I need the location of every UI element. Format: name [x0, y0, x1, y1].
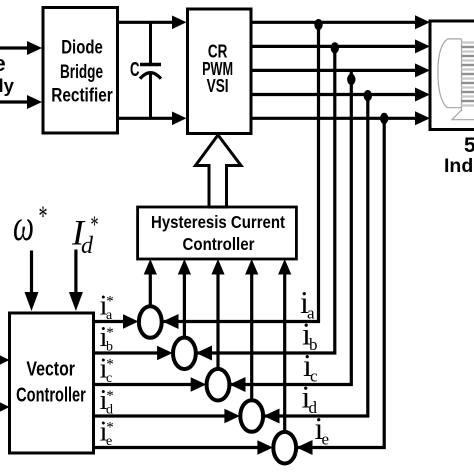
wire DC rail top (rectifier to VSI): [116, 21, 174, 24]
label ib feedback: [302, 316, 318, 355]
arrowhead DC rail top into VSI: [172, 16, 187, 30]
wire riser summer 2 to hysteresis controller: [183, 272, 186, 339]
svg-text:c: c: [310, 367, 318, 386]
wire riser summer 1 to hysteresis controller: [149, 272, 152, 307]
wire feedback drop ib: [197, 46, 335, 353]
summer junction 1: [139, 306, 162, 338]
wire VC output id* to summer 4: [92, 414, 227, 417]
label ib* reference: [100, 321, 114, 355]
junction dot phase a: [314, 19, 322, 30]
arrowhead phase c into motor: [415, 63, 430, 77]
arrowhead riser 3 into HCC: [211, 259, 224, 275]
wire riser summer 3 to hysteresis controller: [216, 272, 219, 370]
svg-text:Diode: Diode: [61, 38, 103, 59]
svg-text:Rectifier: Rectifier: [51, 86, 113, 107]
label ie feedback: [315, 410, 330, 449]
arrowhead riser 1 into HCC: [144, 259, 157, 275]
arrowhead feedback ia into summer 1: [163, 314, 179, 329]
svg-text:Bridge: Bridge: [60, 62, 103, 83]
wire phase a line VSI to motor: [251, 21, 418, 24]
summer junction 3: [207, 369, 230, 401]
wire AC supply line 2: [0, 100, 30, 103]
wire omega* command arrow: [30, 251, 33, 296]
box diode bridge rectifier: [43, 8, 118, 134]
wire riser summer 5 to hysteresis controller: [283, 272, 286, 433]
label ie* reference: [100, 416, 114, 450]
wire feedback drop ie: [297, 118, 384, 447]
label id feedback: [302, 379, 318, 418]
arrowhead phase b into motor: [415, 39, 430, 53]
wire feedback drop ic: [230, 70, 351, 384]
arrowhead ia* into summer 1: [123, 314, 139, 329]
wire VC output ib* to summer 2: [92, 351, 160, 354]
arrowhead Id* into VC: [69, 292, 83, 311]
svg-text:Hysteresis Current: Hysteresis Current: [151, 212, 285, 232]
wire VC output ie* to summer 5: [92, 446, 260, 449]
wire feedback drop id: [264, 95, 368, 417]
summer junction 4: [240, 400, 263, 432]
wire phase c line VSI to motor: [251, 69, 418, 72]
block arrow HCC to VSI: [196, 135, 242, 207]
label ic feedback: [303, 347, 318, 386]
label id* reference: [100, 384, 114, 418]
summer junction 2: [173, 338, 196, 370]
wire Id* command arrow: [74, 250, 77, 296]
box induction motor: [430, 21, 474, 130]
svg-text:C: C: [130, 58, 140, 81]
summer junction 5: [273, 432, 296, 464]
capacitor C1 bottom lead: [149, 73, 152, 118]
junction dot phase e: [380, 113, 388, 124]
wire VC output ic* to summer 3: [92, 383, 194, 386]
svg-text:ly: ly: [0, 75, 15, 96]
junction dot phase d: [364, 90, 372, 101]
arrowhead riser 5 into HCC: [278, 259, 291, 275]
wire phase e line VSI to motor: [251, 117, 418, 120]
arrowhead phase e into motor: [415, 111, 430, 125]
arrowhead ib* into summer 2: [157, 346, 173, 361]
arrowhead VC input 2 (cut at left edge): [0, 400, 10, 415]
arrowhead VC input 1 (cut at left edge): [0, 353, 10, 368]
arrowhead phase a into motor: [415, 15, 430, 29]
arrowhead riser 4 into HCC: [245, 259, 258, 275]
arrowhead AC line 2 into rectifier: [27, 95, 42, 109]
wire DC rail bottom (rectifier to VSI): [116, 117, 174, 120]
label ia feedback: [300, 284, 315, 323]
label ia* reference: [100, 290, 114, 324]
svg-text:VSI: VSI: [207, 76, 229, 96]
wire VC output ia* to summer 1: [92, 320, 126, 323]
arrowhead ic* into summer 3: [191, 377, 207, 392]
svg-text:Induction Motor: Induction Motor: [444, 155, 474, 177]
wire feedback drop ia: [163, 22, 319, 321]
arrowhead omega* into VC: [25, 292, 39, 311]
junction dot phase c: [347, 74, 355, 85]
label ic* reference: [100, 353, 114, 387]
junction dot phase b: [331, 42, 339, 53]
motor icon stator stripes: [462, 43, 474, 106]
box vector controller: [10, 313, 94, 453]
arrowhead ie* into summer 5: [257, 440, 273, 455]
arrowhead feedback ie into summer 5: [297, 440, 313, 455]
svg-text:e: e: [0, 51, 6, 76]
box hysteresis current controller: [138, 207, 297, 259]
capacitor C1 top plate: [140, 63, 161, 66]
svg-text:5-Phase: 5-Phase: [464, 134, 474, 157]
motor icon body outline: [438, 39, 474, 120]
arrowhead feedback id into summer 4: [264, 409, 280, 424]
svg-text:*: *: [91, 212, 99, 238]
wire phase b line VSI to motor: [251, 45, 418, 48]
arrowhead phase d into motor: [415, 88, 430, 102]
arrowhead feedback ib into summer 2: [196, 346, 212, 361]
arrowhead feedback ic into summer 3: [230, 377, 246, 392]
arrowhead DC rail bottom into VSI: [172, 112, 187, 126]
arrowhead id* into summer 4: [224, 409, 240, 424]
svg-text:Vector: Vector: [26, 359, 75, 381]
arrowhead riser 2 into HCC: [178, 259, 191, 275]
svg-text:e: e: [322, 430, 330, 449]
svg-text:*: *: [39, 202, 48, 233]
wire phase d line VSI to motor: [251, 93, 418, 96]
arrowhead AC line 1 into rectifier: [27, 41, 42, 55]
capacitor C1 top lead: [149, 22, 152, 64]
wire AC supply line 1: [0, 46, 30, 49]
svg-text:e: e: [106, 434, 112, 449]
box CR PWM VSI: [188, 9, 252, 134]
svg-text:ω: ω: [13, 201, 34, 250]
wire riser summer 4 to hysteresis controller: [250, 272, 253, 402]
svg-text:Controller: Controller: [16, 385, 86, 407]
capacitor C1 curved bottom plate: [140, 73, 161, 79]
svg-text:Controller: Controller: [183, 234, 255, 254]
